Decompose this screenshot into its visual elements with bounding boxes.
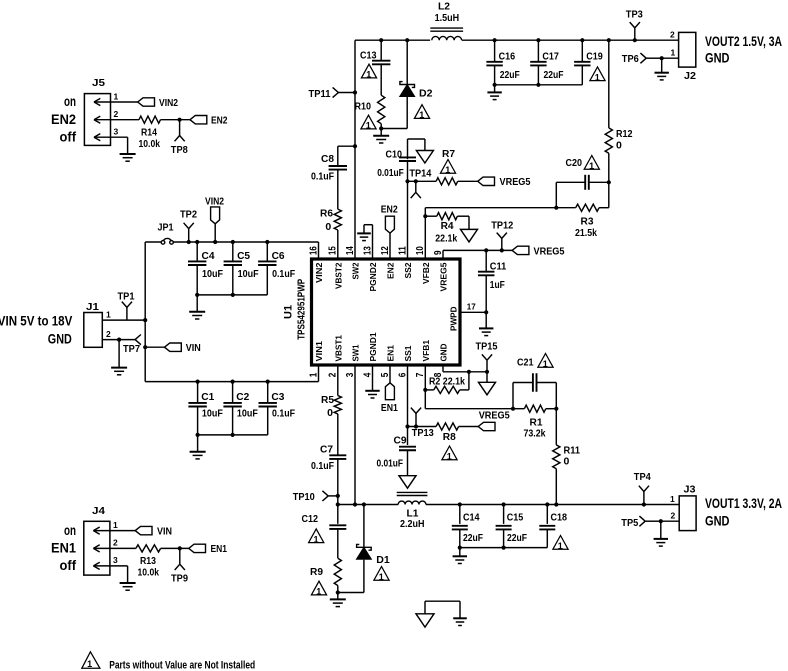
- svg-text:10uF: 10uF: [202, 268, 223, 280]
- svg-text:J4: J4: [92, 505, 105, 517]
- svg-text:EN2: EN2: [51, 112, 76, 127]
- svg-text:1: 1: [113, 520, 118, 530]
- svg-text:13: 13: [362, 246, 373, 255]
- svg-text:12: 12: [380, 246, 391, 255]
- svg-text:TP3: TP3: [626, 8, 643, 20]
- svg-text:22uF: 22uF: [500, 69, 520, 81]
- svg-text:EN2: EN2: [211, 115, 228, 127]
- svg-text:R10: R10: [355, 101, 372, 113]
- svg-text:R2 22.1k: R2 22.1k: [429, 375, 465, 387]
- svg-text:C8: C8: [321, 153, 334, 165]
- svg-text:VFB2: VFB2: [421, 262, 431, 284]
- svg-text:TP14: TP14: [409, 168, 431, 180]
- svg-text:D2: D2: [419, 88, 433, 100]
- svg-text:SW2: SW2: [351, 262, 361, 279]
- svg-text:2: 2: [671, 511, 676, 521]
- svg-text:1: 1: [87, 659, 92, 669]
- svg-text:D1: D1: [376, 554, 390, 566]
- svg-text:22.1k: 22.1k: [435, 233, 457, 245]
- svg-text:R4: R4: [441, 220, 454, 232]
- svg-text:VBST2: VBST2: [333, 262, 343, 289]
- svg-text:EN2: EN2: [381, 203, 398, 215]
- svg-text:TP7: TP7: [123, 343, 140, 355]
- svg-text:C20: C20: [566, 157, 583, 169]
- svg-text:1: 1: [379, 572, 384, 582]
- svg-text:6: 6: [397, 372, 408, 377]
- svg-text:7: 7: [415, 372, 426, 377]
- svg-text:VIN2: VIN2: [205, 196, 224, 208]
- svg-text:L2: L2: [438, 1, 450, 13]
- svg-text:SW1: SW1: [351, 344, 361, 361]
- svg-text:EN1: EN1: [51, 541, 76, 556]
- svg-text:EN1: EN1: [386, 345, 396, 362]
- svg-text:EN2: EN2: [386, 262, 396, 279]
- svg-text:1: 1: [589, 161, 594, 171]
- svg-text:TP5: TP5: [621, 517, 638, 529]
- svg-text:R12: R12: [616, 128, 633, 140]
- svg-text:VIN2: VIN2: [314, 262, 324, 283]
- svg-text:22uF: 22uF: [463, 532, 483, 544]
- svg-text:3: 3: [114, 127, 119, 137]
- svg-text:10: 10: [415, 246, 426, 255]
- svg-text:73.2k: 73.2k: [524, 428, 546, 440]
- svg-text:TP10: TP10: [293, 491, 315, 503]
- svg-text:VREG5: VREG5: [439, 262, 449, 291]
- svg-text:off: off: [60, 130, 77, 145]
- svg-text:1: 1: [447, 451, 452, 461]
- svg-text:TP1: TP1: [118, 291, 135, 303]
- svg-text:14: 14: [345, 246, 356, 255]
- svg-text:C7: C7: [320, 444, 333, 456]
- svg-text:TPS542951PWP: TPS542951PWP: [297, 279, 308, 340]
- svg-text:3: 3: [113, 555, 118, 565]
- svg-text:J1: J1: [86, 301, 99, 313]
- svg-text:22uF: 22uF: [507, 532, 527, 544]
- svg-text:C21: C21: [517, 356, 534, 368]
- svg-text:PGND1: PGND1: [368, 332, 378, 361]
- svg-text:1: 1: [558, 541, 563, 551]
- svg-text:Parts without Value are Not In: Parts without Value are Not Installed: [109, 660, 255, 671]
- svg-text:U1: U1: [283, 305, 295, 319]
- svg-text:TP6: TP6: [622, 53, 639, 65]
- svg-text:1: 1: [366, 70, 371, 80]
- svg-text:22uF: 22uF: [544, 69, 564, 81]
- svg-text:VREG5: VREG5: [500, 176, 531, 188]
- svg-text:0: 0: [327, 407, 333, 419]
- svg-text:VIN 5V to 18V: VIN 5V to 18V: [0, 314, 72, 329]
- svg-text:1: 1: [313, 534, 318, 544]
- svg-text:1: 1: [366, 121, 371, 131]
- svg-text:0: 0: [616, 139, 622, 151]
- svg-text:C12: C12: [302, 513, 319, 525]
- svg-text:C19: C19: [586, 51, 603, 63]
- svg-text:J2: J2: [684, 70, 696, 82]
- svg-text:10uF: 10uF: [202, 408, 223, 420]
- svg-text:11: 11: [397, 246, 408, 255]
- svg-text:2: 2: [106, 329, 111, 339]
- svg-text:C14: C14: [463, 511, 480, 523]
- svg-text:15: 15: [328, 246, 339, 255]
- svg-text:PGND2: PGND2: [368, 262, 378, 291]
- svg-text:10.0k: 10.0k: [139, 138, 161, 150]
- svg-text:0.1uF: 0.1uF: [311, 170, 334, 182]
- svg-text:1.5uH: 1.5uH: [435, 12, 460, 24]
- svg-text:R8: R8: [443, 431, 456, 443]
- svg-text:R14: R14: [141, 126, 157, 138]
- svg-text:C15: C15: [507, 511, 524, 523]
- svg-text:2: 2: [114, 109, 119, 119]
- svg-text:TP13: TP13: [412, 427, 434, 439]
- svg-text:17: 17: [467, 303, 476, 312]
- svg-text:1: 1: [670, 494, 675, 504]
- svg-text:J5: J5: [92, 77, 105, 89]
- svg-text:1: 1: [419, 110, 424, 120]
- svg-text:C1: C1: [201, 391, 214, 403]
- svg-text:TP8: TP8: [171, 144, 188, 156]
- svg-text:TP12: TP12: [491, 220, 513, 232]
- svg-text:0.1uF: 0.1uF: [272, 268, 295, 280]
- svg-text:R9: R9: [310, 566, 323, 578]
- svg-text:1: 1: [445, 165, 450, 175]
- svg-text:C2: C2: [236, 391, 249, 403]
- svg-text:R6: R6: [320, 207, 333, 219]
- svg-text:10.0k: 10.0k: [138, 567, 160, 579]
- svg-text:R5: R5: [321, 394, 334, 406]
- svg-text:PWPD: PWPD: [448, 307, 458, 332]
- svg-text:9: 9: [433, 250, 444, 255]
- svg-text:C18: C18: [551, 511, 568, 523]
- svg-text:10uF: 10uF: [237, 408, 258, 420]
- svg-text:0: 0: [325, 221, 331, 233]
- svg-text:C4: C4: [202, 250, 215, 262]
- svg-text:R3: R3: [581, 216, 594, 228]
- svg-text:1: 1: [671, 48, 676, 58]
- svg-text:VBST1: VBST1: [333, 335, 343, 362]
- svg-text:on: on: [64, 94, 76, 109]
- svg-text:C3: C3: [271, 391, 284, 403]
- svg-text:2.2uH: 2.2uH: [400, 518, 425, 530]
- svg-text:1: 1: [595, 72, 600, 82]
- svg-text:TP15: TP15: [476, 340, 498, 352]
- svg-text:C6: C6: [272, 250, 285, 262]
- svg-text:off: off: [60, 558, 77, 573]
- svg-text:21.5k: 21.5k: [575, 227, 597, 239]
- svg-text:1uF: 1uF: [490, 279, 505, 291]
- svg-text:VIN: VIN: [157, 525, 172, 537]
- svg-text:10uF: 10uF: [238, 268, 259, 280]
- svg-text:16: 16: [308, 246, 319, 255]
- svg-text:VREG5: VREG5: [534, 245, 565, 257]
- svg-text:3: 3: [345, 372, 356, 377]
- svg-text:VREG5: VREG5: [479, 409, 510, 421]
- svg-text:SS1: SS1: [403, 345, 413, 361]
- svg-text:0: 0: [564, 455, 570, 467]
- svg-text:5: 5: [380, 372, 391, 377]
- svg-text:2: 2: [670, 30, 675, 40]
- svg-text:on: on: [64, 523, 76, 538]
- svg-text:C11: C11: [490, 261, 507, 273]
- svg-text:R13: R13: [140, 555, 156, 567]
- svg-text:TP9: TP9: [171, 573, 188, 585]
- svg-text:C5: C5: [237, 250, 250, 262]
- svg-text:TP4: TP4: [634, 471, 651, 483]
- svg-text:0.01uF: 0.01uF: [377, 167, 404, 179]
- svg-text:2: 2: [113, 538, 118, 548]
- svg-text:TP11: TP11: [309, 88, 331, 100]
- svg-text:TP2: TP2: [180, 209, 197, 221]
- svg-text:4: 4: [362, 372, 373, 377]
- svg-text:R7: R7: [442, 148, 455, 160]
- svg-text:GND: GND: [48, 331, 72, 346]
- svg-text:VOUT1 3.3V, 2A: VOUT1 3.3V, 2A: [705, 496, 782, 511]
- svg-text:C10: C10: [386, 148, 403, 160]
- svg-text:C17: C17: [542, 51, 559, 63]
- svg-text:GND: GND: [439, 344, 449, 362]
- svg-text:2: 2: [328, 372, 339, 377]
- svg-text:1: 1: [106, 310, 111, 320]
- svg-text:1: 1: [114, 92, 119, 102]
- svg-text:1: 1: [308, 372, 319, 377]
- svg-text:C16: C16: [499, 51, 516, 63]
- svg-text:C9: C9: [394, 435, 407, 447]
- svg-text:EN1: EN1: [211, 543, 228, 555]
- svg-text:VIN2: VIN2: [159, 97, 178, 109]
- svg-text:GND: GND: [705, 51, 730, 66]
- svg-text:EN1: EN1: [381, 402, 398, 414]
- svg-text:0.01uF: 0.01uF: [377, 457, 404, 469]
- svg-text:1: 1: [543, 359, 548, 369]
- svg-text:VFB1: VFB1: [421, 340, 431, 362]
- svg-text:VIN: VIN: [186, 342, 201, 354]
- svg-text:1: 1: [316, 587, 321, 597]
- svg-text:0.1uF: 0.1uF: [272, 408, 295, 420]
- svg-text:VOUT2 1.5V, 3A: VOUT2 1.5V, 3A: [705, 34, 782, 49]
- svg-text:GND: GND: [705, 513, 730, 528]
- svg-text:JP1: JP1: [158, 222, 174, 234]
- svg-text:C13: C13: [360, 50, 377, 62]
- svg-text:J3: J3: [684, 483, 696, 495]
- svg-text:VIN1: VIN1: [314, 341, 324, 362]
- svg-text:0.1uF: 0.1uF: [311, 460, 334, 472]
- svg-text:SS2: SS2: [403, 262, 413, 278]
